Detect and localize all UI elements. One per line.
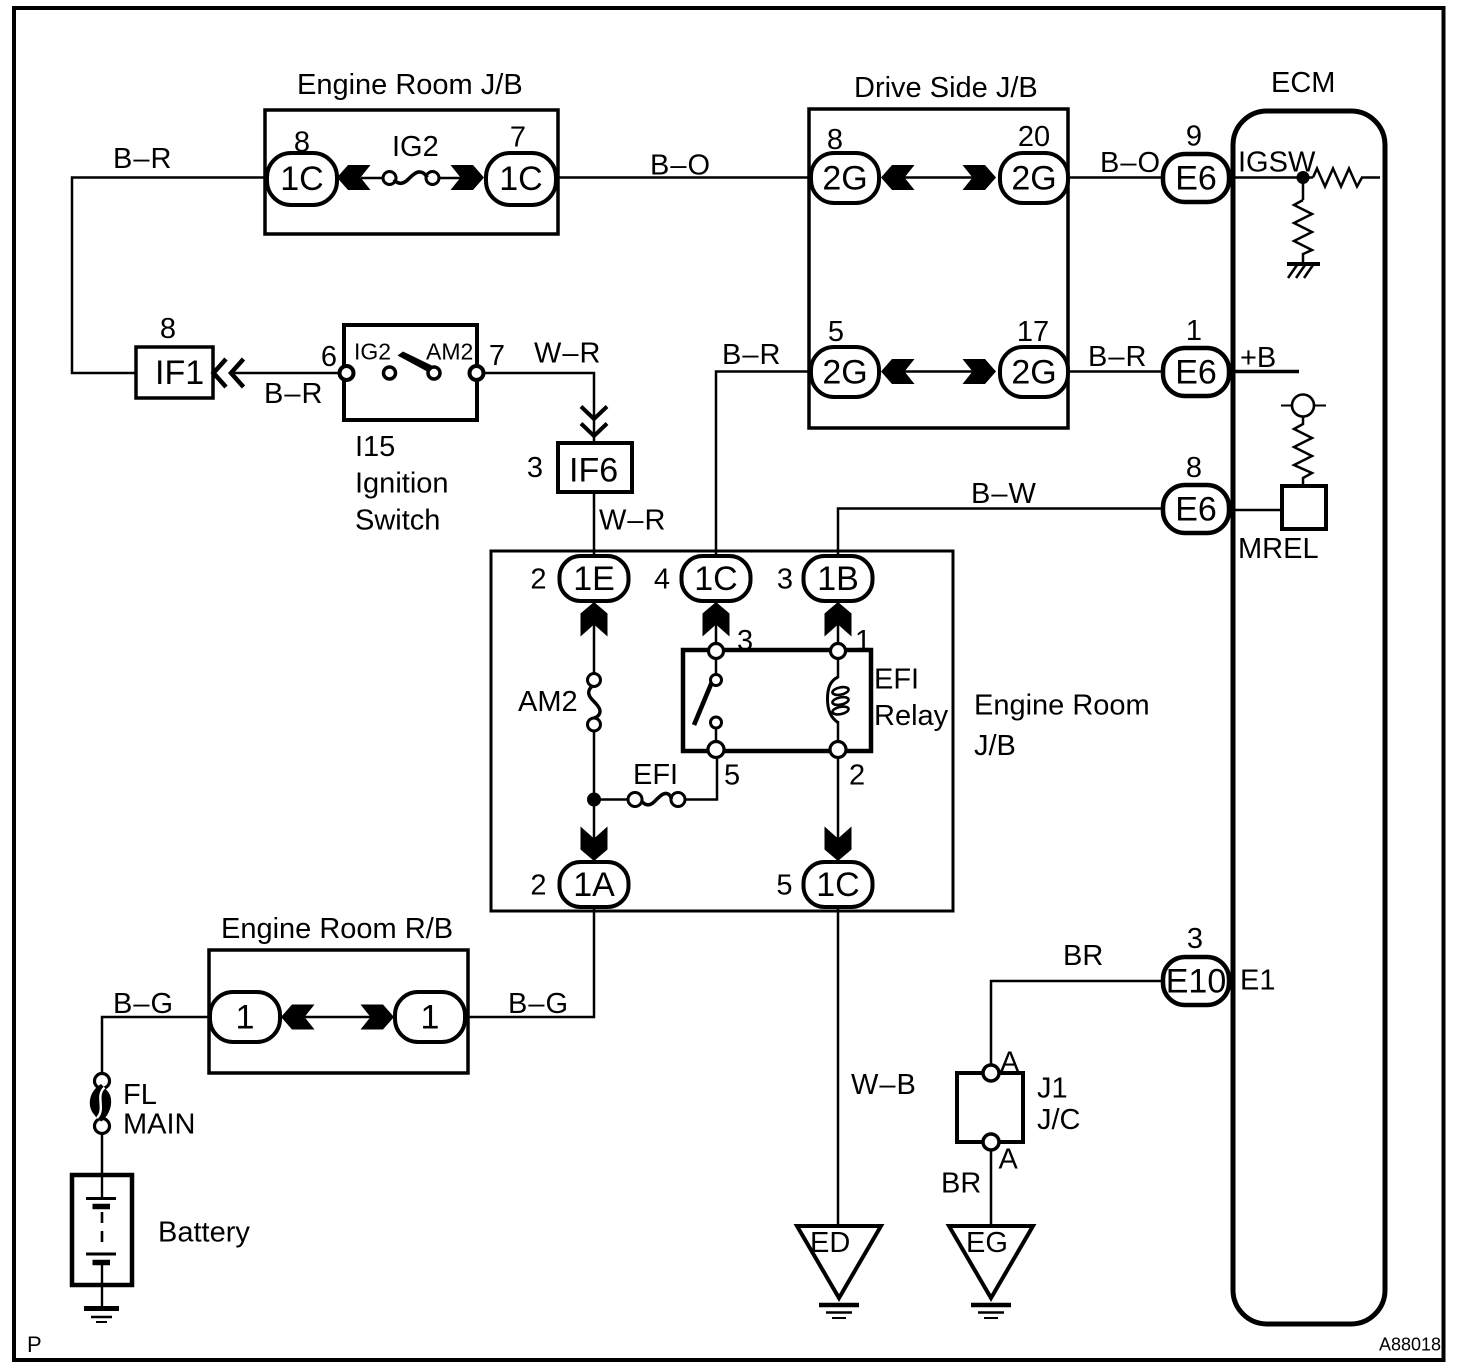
svg-text:2G: 2G: [822, 354, 867, 392]
ground triangle EG: [949, 1226, 1033, 1298]
svg-text:2: 2: [849, 760, 865, 792]
ground marks battery: [84, 1306, 119, 1311]
relay pin 5 circle: [708, 742, 724, 758]
connector oval E6 pin 8: [1163, 485, 1229, 533]
junction dot IGSW: [1297, 172, 1309, 184]
svg-text:2: 2: [530, 564, 546, 596]
wire EFI fuse to relay pin 5: [685, 749, 717, 800]
connector oval 1A pin 2: [560, 862, 629, 907]
svg-text:1C: 1C: [499, 160, 542, 198]
ground triangle ED: [797, 1226, 881, 1298]
svg-text:Drive Side J/B: Drive Side J/B: [854, 72, 1038, 104]
svg-text:Relay: Relay: [874, 700, 949, 732]
svg-text:W–R: W–R: [534, 338, 601, 370]
svg-text:8: 8: [1186, 452, 1202, 484]
fuse IG2 (top J/B): end circles and element: [383, 172, 396, 185]
svg-text:A88018: A88018: [1379, 1335, 1441, 1355]
svg-text:3: 3: [527, 452, 543, 484]
svg-text:IF1: IF1: [155, 354, 204, 392]
svg-text:2: 2: [530, 870, 546, 902]
svg-text:1: 1: [855, 625, 871, 657]
svg-text:B–R: B–R: [113, 143, 172, 175]
wire B-G from 1A down to Engine Room R/B: [466, 907, 594, 1017]
arrow dart right (Drive Side row1): [963, 165, 997, 190]
svg-text:7: 7: [489, 340, 505, 372]
svg-text:AM2: AM2: [426, 339, 473, 365]
box IF1: [136, 347, 213, 398]
svg-text:A: A: [1000, 1047, 1020, 1079]
battery plate long thin (+): [86, 1197, 116, 1200]
wire E6(8) to MREL box: [1229, 509, 1282, 512]
battery plate long thin (2): [86, 1253, 116, 1256]
wire junction right through EFI fuse: [594, 798, 628, 801]
svg-text:5: 5: [828, 316, 844, 348]
wire B-R between 2G ovals row2: [904, 370, 973, 373]
arrow dart down (to 1A): [581, 827, 608, 862]
arrow dart up (to 1E): [581, 602, 608, 637]
svg-text:1: 1: [421, 999, 440, 1037]
wire relay switch link: [715, 657, 718, 675]
connector oval 1 (R/B right): [395, 992, 465, 1042]
wire B-W from 1B up and right to E6(8): [838, 509, 1164, 558]
wire +B stub inside ECM: [1229, 370, 1299, 374]
wire AM2 fuse to junction: [593, 731, 596, 799]
wire BR from E10 to J1: [991, 981, 1164, 1066]
svg-text:2G: 2G: [822, 160, 867, 198]
box ECM: [1233, 111, 1385, 1324]
wire B-O 2G(20) to E6(9): [1066, 176, 1164, 179]
arrow dart left (R/B): [281, 1005, 315, 1030]
chevrons down above IF6: [581, 407, 607, 420]
svg-text:J/C: J/C: [1037, 1104, 1081, 1136]
arrow dart left (Drive Side row2): [881, 359, 915, 384]
ignition switch AM2 contact circle: [428, 367, 440, 379]
relay switch contact bottom circle: [711, 717, 722, 728]
battery plate short thick (2): [93, 1260, 111, 1266]
wire W-R IF6 to 1E: [593, 492, 596, 557]
resistor IGSW vertical: [1294, 200, 1312, 263]
J1 pin A bottom circle: [983, 1134, 999, 1150]
box Engine Room J/B (center): [491, 551, 953, 911]
battery internal: top wire: [101, 1176, 103, 1197]
wire relay coil link bottom: [837, 721, 840, 744]
svg-text:J/B: J/B: [974, 730, 1016, 762]
svg-text:8: 8: [294, 127, 310, 159]
ignition switch pin 7 circle: [470, 366, 484, 380]
ground IGSW (inside ECM): [1287, 264, 1320, 278]
wire relay pin 2 down to 1C(5): [837, 755, 840, 862]
wire relay switch to pin 5: [715, 727, 718, 743]
J1 pin A top circle: [983, 1065, 999, 1081]
box MREL: [1282, 486, 1326, 529]
wire FL MAIN to battery: [101, 1133, 104, 1176]
wire B-G left to FL MAIN: [102, 1017, 210, 1074]
svg-text:E6: E6: [1175, 160, 1217, 198]
wire W-B from 1C(5) down to ED ground: [837, 907, 840, 1226]
svg-text:1C: 1C: [280, 160, 323, 198]
arrow dart right (R/B): [361, 1005, 395, 1030]
connector oval 2G pin 5: [811, 347, 879, 397]
svg-text:4: 4: [654, 564, 670, 596]
svg-text:BR: BR: [1063, 940, 1103, 972]
svg-text:AM2: AM2: [518, 686, 578, 718]
wire through MREL source circle: [1281, 405, 1326, 407]
svg-text:8: 8: [827, 124, 843, 156]
box EFI relay: [683, 650, 871, 751]
svg-text:1A: 1A: [573, 866, 615, 904]
relay switch lever: [694, 683, 712, 725]
svg-text:B–W: B–W: [971, 478, 1037, 510]
relay coil: [828, 677, 850, 723]
battery plate short thick (-): [93, 1204, 111, 1210]
connector oval 1E pin 2: [560, 556, 629, 601]
svg-text:3: 3: [737, 625, 753, 657]
wire B-R from IF1 chevrons to ignition pin 6: [230, 372, 344, 375]
connector oval 1 (R/B left): [210, 992, 280, 1042]
wire top J/B fuse stub right: [439, 177, 461, 180]
wire IGSW junction down to resistor: [1302, 178, 1305, 201]
arrow dart left (Drive Side row1): [881, 165, 915, 190]
resistor IGSW horizontal: [1313, 169, 1380, 187]
svg-text:2G: 2G: [1011, 160, 1056, 198]
connector oval 2G pin 8: [811, 153, 879, 203]
svg-text:FL: FL: [123, 1079, 157, 1111]
connector oval E6 pin 9: [1163, 154, 1229, 202]
arrow dart left (top J/B): [337, 165, 371, 190]
svg-text:B–G: B–G: [508, 988, 569, 1020]
ground marks EG: [971, 1303, 1011, 1308]
wire B-R top-left horizontal row1: [72, 178, 267, 374]
svg-text:I15: I15: [355, 431, 395, 463]
svg-text:EFI: EFI: [874, 664, 919, 696]
svg-text:W–R: W–R: [599, 505, 666, 537]
junction dot: [588, 793, 601, 806]
connector oval 1B pin 3: [804, 556, 873, 601]
svg-text:EFI: EFI: [633, 759, 678, 791]
svg-text:IF6: IF6: [569, 452, 618, 490]
svg-text:Engine Room J/B: Engine Room J/B: [297, 69, 523, 101]
svg-text:1: 1: [1186, 315, 1202, 347]
wire B-R 2G(17) to E6(1): [1066, 370, 1164, 373]
svg-text:B–G: B–G: [113, 988, 174, 1020]
svg-text:3: 3: [1187, 923, 1203, 955]
box Engine Room R/B: [209, 950, 468, 1073]
resistor MREL vertical: [1294, 416, 1312, 486]
wire 1B down to relay pin 1: [837, 601, 840, 645]
fuse AM2: end circles and element: [588, 674, 601, 687]
wire B-O between Engine Room J/B and Drive Side J/B: [556, 176, 812, 179]
svg-text:ECM: ECM: [1271, 67, 1335, 99]
battery internal: bottom wire: [101, 1265, 103, 1307]
svg-text:Switch: Switch: [355, 505, 440, 537]
wire junction down to 1A: [593, 799, 596, 862]
svg-text:Engine Room R/B: Engine Room R/B: [221, 913, 453, 945]
arrow dart up (to 1C pin4): [703, 602, 730, 637]
svg-text:B–O: B–O: [1100, 147, 1161, 179]
wire 1E down through AM2 fuse: [593, 601, 596, 674]
relay pin 1 circle: [831, 644, 846, 659]
wire 1C(4) down to relay pin 3: [715, 601, 718, 645]
svg-text:Engine Room: Engine Room: [974, 690, 1150, 722]
wire top J/B fuse stub left: [361, 177, 383, 180]
svg-text:1E: 1E: [573, 560, 615, 598]
connector oval 2G pin 20: [1000, 153, 1068, 203]
ignition switch lever: [398, 352, 435, 373]
svg-text:B–R: B–R: [264, 378, 323, 410]
connector oval E10 pin 3: [1163, 957, 1229, 1005]
svg-text:E6: E6: [1175, 354, 1217, 392]
connector oval 1C pin 7 (top J/B right): [486, 153, 556, 205]
svg-text:W–B: W–B: [851, 1069, 917, 1101]
svg-text:1C: 1C: [816, 866, 859, 904]
wire IGSW inside ECM: [1229, 176, 1313, 179]
wire J1 to EG ground: [990, 1149, 993, 1226]
arrow dart right (Drive Side row2): [963, 359, 997, 384]
svg-text:3: 3: [777, 564, 793, 596]
svg-text:17: 17: [1017, 316, 1049, 348]
svg-text:B–R: B–R: [722, 339, 781, 371]
svg-text:P: P: [27, 1332, 42, 1357]
svg-text:A: A: [999, 1144, 1019, 1176]
svg-text:ED: ED: [810, 1227, 850, 1259]
svg-text:2G: 2G: [1011, 354, 1056, 392]
svg-text:+B: +B: [1240, 342, 1276, 374]
svg-text:MAIN: MAIN: [123, 1109, 196, 1141]
svg-text:IG2: IG2: [354, 339, 391, 365]
svg-text:5: 5: [724, 760, 740, 792]
battery internal dashed link: [101, 1212, 104, 1250]
svg-text:MREL: MREL: [1238, 533, 1319, 565]
box J1 J/C: [957, 1073, 1023, 1142]
wire W-R ignition pin7 to IF6: [483, 373, 594, 443]
box Engine Room J/B (top): [265, 110, 558, 234]
fusible link FL MAIN: end circles and element: [95, 1074, 110, 1089]
box IF6: [558, 443, 632, 492]
svg-text:IGSW: IGSW: [1238, 147, 1316, 179]
svg-text:Ignition: Ignition: [355, 468, 449, 500]
svg-text:BR: BR: [941, 1168, 981, 1200]
connector oval 1C pin 4: [682, 556, 751, 601]
box battery: [72, 1175, 132, 1285]
relay pin 2 circle: [830, 742, 846, 758]
arrow dart down (to 1C pin5): [825, 827, 852, 862]
svg-text:IG2: IG2: [392, 131, 439, 163]
ignition switch pin 6 circle: [340, 366, 354, 380]
svg-text:J1: J1: [1037, 1073, 1068, 1105]
svg-text:EG: EG: [966, 1227, 1008, 1259]
svg-text:B–O: B–O: [650, 150, 711, 182]
svg-text:20: 20: [1018, 121, 1050, 153]
svg-text:E1: E1: [1240, 965, 1275, 997]
svg-text:Battery: Battery: [158, 1217, 250, 1249]
connector oval E6 pin 1: [1163, 348, 1229, 396]
svg-text:1B: 1B: [817, 560, 859, 598]
wire B-R from 1C(4) up to Drive Side J/B: [716, 372, 812, 558]
svg-text:8: 8: [160, 313, 176, 345]
wire relay coil link top: [837, 657, 840, 678]
svg-text:B–R: B–R: [1088, 341, 1147, 373]
wire between R/B ovals: [304, 1016, 371, 1019]
svg-text:5: 5: [776, 870, 792, 902]
relay switch contact top circle: [711, 675, 722, 686]
relay pin 3 circle: [709, 644, 724, 659]
arrow dart right (top J/B): [451, 165, 485, 190]
connector oval 2G pin 17: [1000, 347, 1068, 397]
MREL source circle: [1292, 395, 1314, 417]
svg-text:E6: E6: [1175, 491, 1217, 529]
svg-text:E10: E10: [1166, 963, 1227, 1001]
svg-text:1C: 1C: [694, 560, 737, 598]
ground marks ED: [819, 1303, 859, 1308]
box I15 ignition switch: [344, 325, 477, 420]
chevrons left of ignition (next to IF1): [214, 359, 227, 387]
wire between 2G ovals row1: [904, 176, 973, 179]
fuse EFI: end circles and element: [628, 793, 642, 807]
connector oval 1C pin 8 (top J/B left): [267, 153, 337, 205]
connector oval 1C pin 5: [804, 862, 873, 907]
ignition switch IG2 contact circle: [384, 367, 396, 379]
svg-text:9: 9: [1186, 121, 1202, 153]
svg-text:1: 1: [236, 999, 255, 1037]
arrow dart up (to 1B): [825, 602, 852, 637]
svg-text:7: 7: [510, 122, 526, 154]
box Drive Side J/B: [809, 109, 1068, 428]
svg-text:6: 6: [321, 341, 337, 373]
